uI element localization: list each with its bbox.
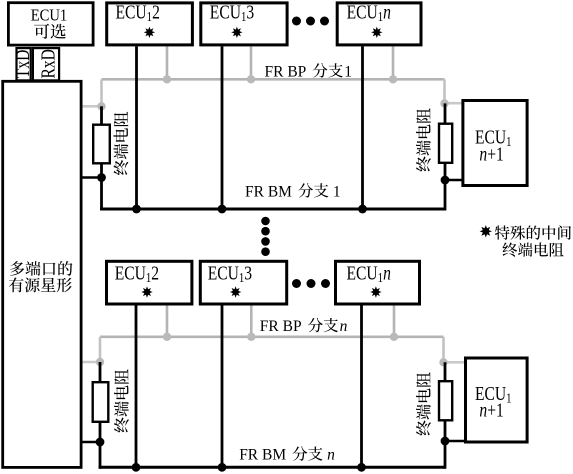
svg-text:ECU1n: ECU1n bbox=[347, 1, 392, 24]
svg-text:FR BP: FR BP bbox=[265, 63, 307, 80]
svg-text:ECU12: ECU12 bbox=[116, 1, 160, 24]
svg-text:ECU13: ECU13 bbox=[208, 262, 253, 285]
svg-text:1: 1 bbox=[344, 63, 352, 80]
svg-text:TxD: TxD bbox=[12, 49, 34, 78]
svg-text:ECU1n: ECU1n bbox=[347, 262, 392, 285]
svg-text:ECU1: ECU1 bbox=[31, 7, 68, 25]
svg-text:ECU12: ECU12 bbox=[115, 262, 159, 285]
svg-text:n+1: n+1 bbox=[479, 399, 503, 421]
svg-text:ECU13: ECU13 bbox=[210, 1, 255, 24]
svg-text:n+1: n+1 bbox=[479, 143, 503, 165]
svg-text:FR BM: FR BM bbox=[245, 183, 292, 200]
svg-text:FR BM: FR BM bbox=[239, 447, 286, 464]
svg-text:1: 1 bbox=[333, 183, 341, 200]
svg-text:FR BP: FR BP bbox=[260, 318, 302, 335]
svg-text:n: n bbox=[327, 447, 335, 464]
svg-text:RxD: RxD bbox=[37, 49, 59, 79]
svg-text:n: n bbox=[340, 318, 348, 335]
